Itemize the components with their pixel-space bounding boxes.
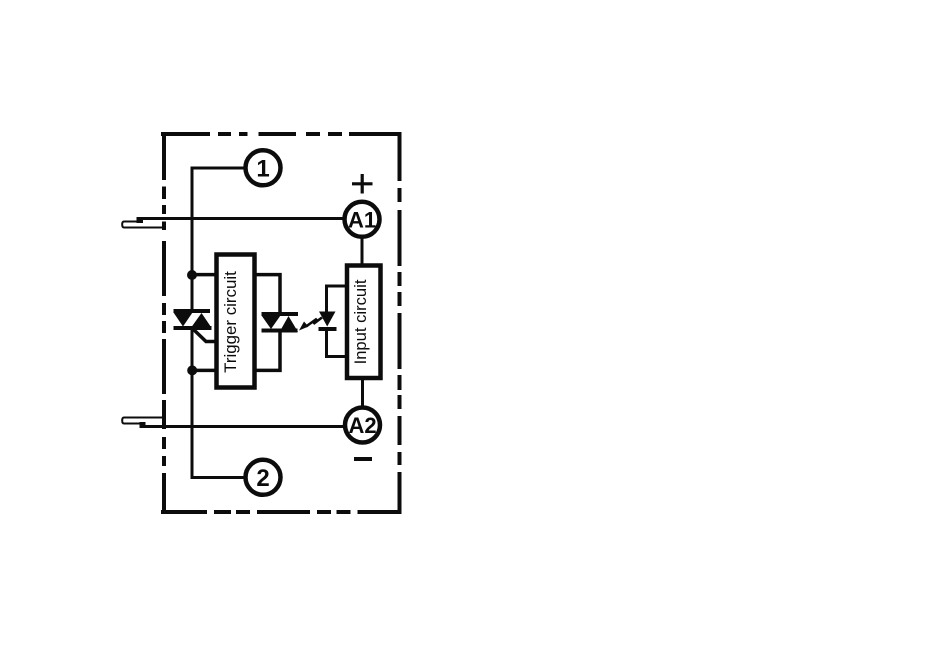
- wire: trigger box right top to phototriac: [254, 275, 280, 313]
- wire: phototriac to trigger box right bottom: [254, 331, 280, 370]
- wire: A1 down to input box: [361, 237, 364, 265]
- terminal circle A1: [345, 202, 380, 237]
- wire: terminal 1 to left bus: [192, 168, 244, 309]
- terminal circle A2: [345, 408, 380, 443]
- wire: node to trigger box bottom left: [192, 369, 217, 373]
- wire: tab to A2: [140, 425, 344, 428]
- package outline (phantom dash-dot border): [161, 132, 402, 514]
- wire: LED loop bottom to input box: [327, 330, 347, 357]
- junction node upper: [187, 270, 197, 280]
- wire: tab to A1: [139, 217, 343, 220]
- wire: node to trigger box top left: [192, 273, 217, 277]
- bottom edge dashes: [161, 510, 402, 514]
- terminal tab lower (quick-connect stub): [122, 418, 166, 427]
- LED D1: [319, 312, 337, 332]
- terminal tab upper (quick-connect stub): [122, 219, 166, 228]
- svg-text:2: 2: [256, 465, 269, 492]
- svg-text:1: 1: [256, 156, 269, 183]
- input circuit box: [347, 266, 381, 379]
- svg-text:Input circuit: Input circuit: [351, 279, 370, 364]
- terminal circle 2: [246, 460, 281, 495]
- trigger circuit box: [217, 255, 255, 388]
- wire: input box down to A2: [361, 378, 364, 407]
- wire: input box to LED loop top: [327, 286, 347, 313]
- plus sign: [352, 174, 373, 194]
- right edge dashes: [398, 132, 402, 514]
- terminal circle 1: [246, 150, 281, 185]
- minus sign: [354, 457, 372, 461]
- triac Q1 (output triac on left bus): [174, 309, 212, 330]
- junction node lower: [187, 365, 197, 375]
- svg-text:A1: A1: [348, 208, 376, 233]
- light arrow (opto coupling): [299, 318, 322, 331]
- wire: left bus lower half to terminal 2: [192, 329, 244, 478]
- svg-text:A2: A2: [348, 413, 376, 438]
- triac Q1 gate wire: [193, 329, 217, 342]
- phototriac U1: [262, 312, 299, 333]
- svg-text:Trigger circuit: Trigger circuit: [221, 271, 240, 373]
- top edge dashes: [161, 132, 402, 136]
- left edge dashes: [162, 132, 166, 514]
